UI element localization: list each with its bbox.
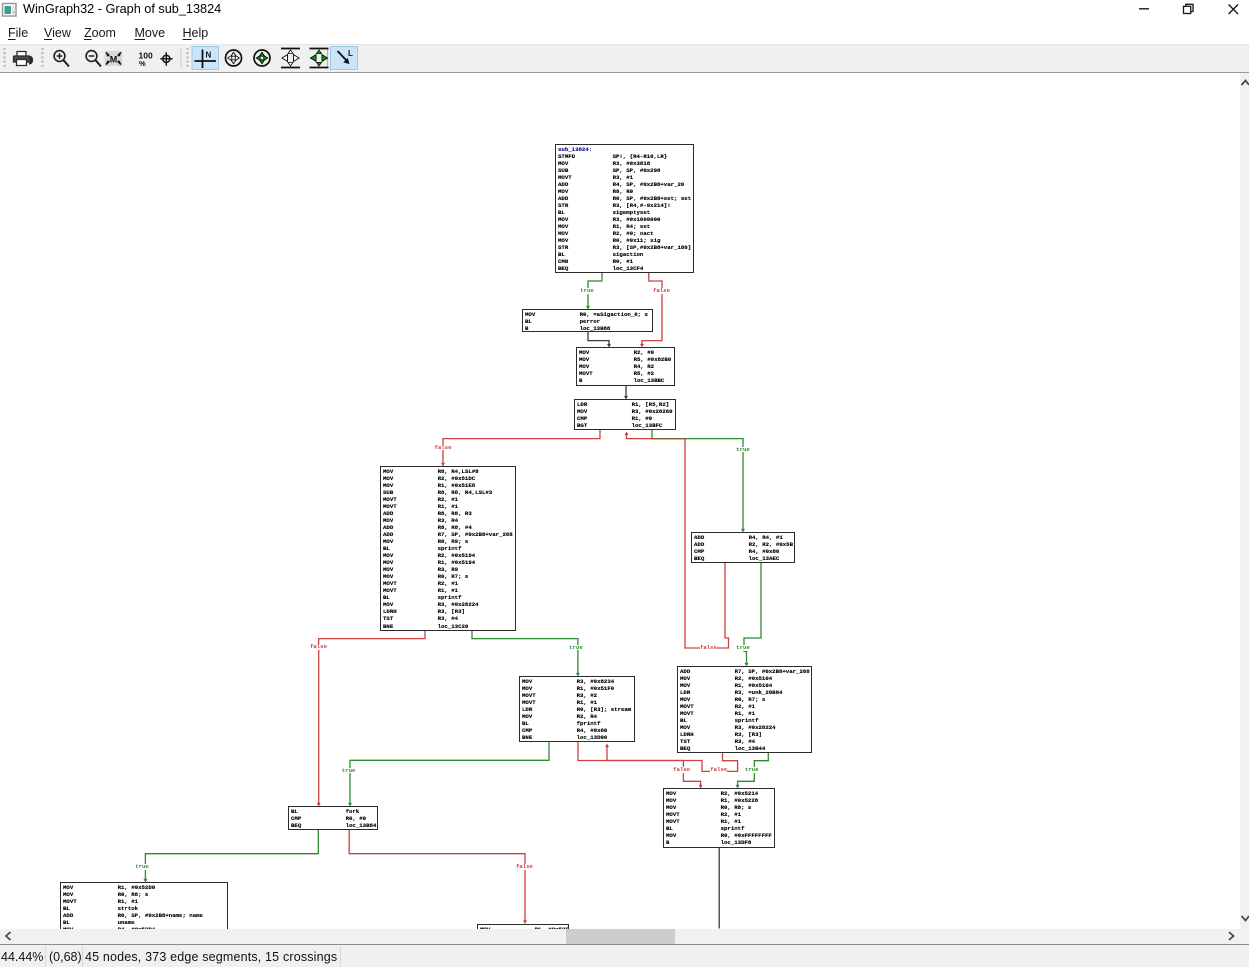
svg-text:M: M xyxy=(110,55,118,65)
svg-text:L: L xyxy=(348,49,353,58)
svg-text:%: % xyxy=(139,59,146,68)
svg-text:N: N xyxy=(206,51,212,60)
